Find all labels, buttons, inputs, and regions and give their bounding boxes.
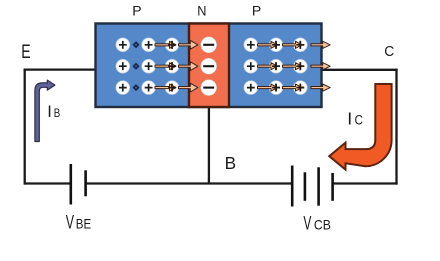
hole-flow arrow row2 into base bbox=[179, 62, 198, 71]
hole (+) row3 col3 collector bbox=[293, 81, 307, 95]
wire bottom left (to VBE battery) bbox=[25, 182, 71, 184]
svg-text:B: B bbox=[225, 153, 236, 173]
hole plus overlay row3 col3 collector bbox=[296, 84, 304, 92]
battery VCB long plate 2 bbox=[317, 167, 320, 205]
svg-text:C: C bbox=[384, 44, 394, 60]
wire bottom right (VCB to right vertical) bbox=[333, 182, 398, 184]
hole plus overlay row1 col3 emitter bbox=[168, 41, 176, 49]
diamond marker row1 emitter bbox=[134, 42, 139, 47]
hole-flow arrow row3 exiting collector bbox=[311, 84, 330, 91]
svg-text:IB: IB bbox=[47, 103, 60, 121]
svg-text:P: P bbox=[132, 3, 141, 19]
hole (+) row3 col2 emitter bbox=[142, 81, 156, 95]
hole (+) row1 col3 emitter bbox=[165, 38, 179, 52]
hole (+) row3 col1 emitter bbox=[116, 81, 130, 95]
hole (+) row1 col2 emitter bbox=[142, 38, 156, 52]
hole (+) row2 col3 collector bbox=[293, 59, 307, 73]
battery VBE short plate bbox=[84, 170, 87, 196]
hole plus overlay row1 col2 collector bbox=[272, 41, 280, 49]
hole-flow arrow row3 into base bbox=[179, 83, 198, 92]
hole (+) row2 col3 emitter bbox=[165, 59, 179, 73]
wire bottom middle (VBE to VCB) bbox=[86, 182, 292, 184]
hole (+) row3 col3 emitter bbox=[165, 81, 179, 95]
hole plus overlay row2 col3 collector bbox=[296, 62, 304, 70]
current arrow IC (orange J shape, down then left) bbox=[329, 84, 391, 170]
hole (+) row1 col1 collector bbox=[244, 38, 258, 52]
electron (-) row1 base bbox=[201, 37, 217, 53]
hole (+) row3 col1 collector bbox=[244, 81, 258, 95]
hole-flow arrow row2 collector a bbox=[258, 63, 278, 70]
transistor body: emitter/collector P regions (blue box) bbox=[96, 24, 322, 108]
diamond marker row3 emitter bbox=[134, 85, 139, 90]
hole plus overlay row1 col3 collector bbox=[296, 41, 304, 49]
hole-flow arrow row3 emitter bbox=[155, 84, 176, 91]
hole-flow arrow row1 into base bbox=[179, 40, 198, 49]
battery VCB short plate 2 bbox=[331, 173, 334, 201]
hole plus overlay row3 col2 collector bbox=[272, 84, 280, 92]
hole (+) row1 col2 collector bbox=[269, 38, 283, 52]
wire emitter top (E to box left) bbox=[24, 68, 96, 70]
svg-text:P: P bbox=[252, 3, 261, 19]
hole-flow arrow row2 emitter bbox=[155, 63, 176, 70]
wire base vertical (box N bottom to bottom wire) bbox=[208, 107, 210, 184]
hole-flow arrow row1 emitter bbox=[155, 41, 176, 48]
hole (+) row2 col2 collector bbox=[269, 59, 283, 73]
hole (+) row1 col1 emitter bbox=[116, 38, 130, 52]
current arrow IB (blue, up then right) bbox=[35, 80, 55, 141]
hole (+) row3 col2 collector bbox=[269, 81, 283, 95]
electron (-) row3 base bbox=[201, 80, 217, 96]
battery VCB short plate 1 bbox=[304, 172, 307, 201]
battery VCB long plate 1 bbox=[291, 166, 294, 207]
hole (+) row2 col1 emitter bbox=[116, 59, 130, 73]
diamond marker row2 emitter bbox=[134, 64, 139, 69]
hole-flow arrow row2 exiting collector bbox=[311, 63, 330, 70]
transistor base: N region (orange) bbox=[189, 24, 229, 108]
hole (+) row2 col1 collector bbox=[244, 59, 258, 73]
svg-text:IC: IC bbox=[347, 109, 363, 129]
hole (+) row2 col2 emitter bbox=[142, 59, 156, 73]
hole (+) row1 col3 collector bbox=[293, 38, 307, 52]
svg-text:E: E bbox=[21, 41, 30, 63]
hole-flow arrow row1 exiting collector bbox=[311, 41, 330, 48]
hole-flow arrow row3 collector a bbox=[258, 84, 278, 91]
wire collector top (box right to C corner) bbox=[321, 69, 398, 71]
hole plus overlay row2 col3 emitter bbox=[168, 62, 176, 70]
hole-flow arrow row3 collector b bbox=[283, 84, 303, 91]
hole-flow arrow row1 collector b bbox=[283, 41, 303, 48]
wire collector right vertical bbox=[395, 69, 397, 185]
hole-flow arrow row2 collector b bbox=[283, 63, 303, 70]
hole plus overlay row3 col3 emitter bbox=[168, 84, 176, 92]
battery VBE long plate bbox=[70, 164, 73, 205]
hole-flow arrow row1 collector a bbox=[258, 41, 278, 48]
hole plus overlay row2 col2 collector bbox=[272, 62, 280, 70]
wire emitter left vertical bbox=[24, 69, 26, 185]
electron (-) row2 base bbox=[201, 58, 217, 74]
svg-text:N: N bbox=[197, 3, 206, 19]
